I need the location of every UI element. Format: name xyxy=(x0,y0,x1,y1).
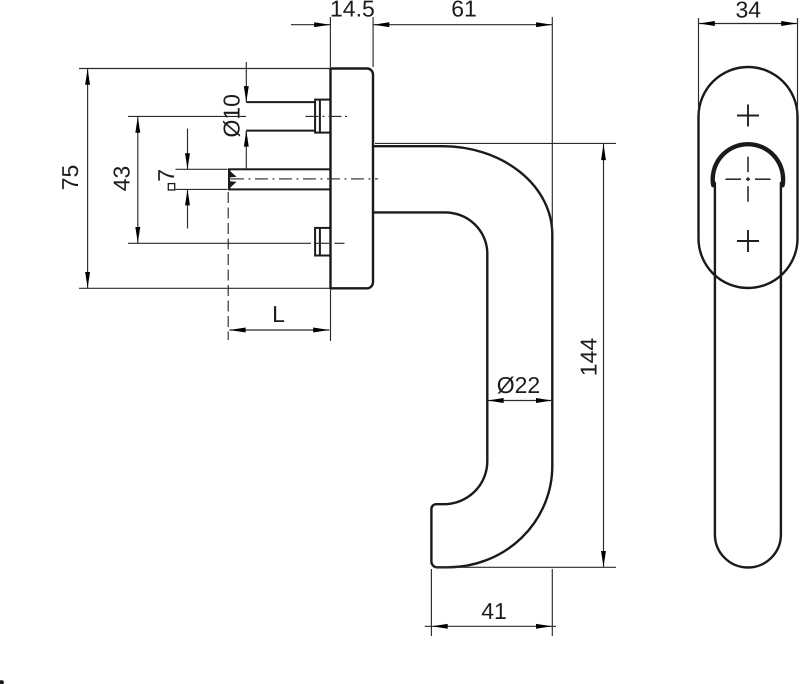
dimension line L xyxy=(229,329,329,331)
plate (rosette side view) xyxy=(331,69,374,289)
dimension line 61 xyxy=(373,24,552,26)
grip tube (front view) xyxy=(715,183,781,568)
top screw head xyxy=(315,100,330,133)
svg-text:41: 41 xyxy=(481,598,507,624)
dimension line diameter-10 (outside arrows) xyxy=(245,62,247,102)
rosette (front view, stadium) xyxy=(699,67,798,288)
svg-text:7: 7 xyxy=(153,169,179,182)
svg-text:Ø10: Ø10 xyxy=(219,94,245,137)
dimension line square-7 (outside arrows) xyxy=(187,129,189,170)
extension lines of 14.5 dim (plate faces) xyxy=(329,17,331,67)
dimension line 144 xyxy=(603,144,605,568)
extension line top of 75 dim / plate top level xyxy=(79,68,331,70)
grip end arc (thick) xyxy=(713,144,783,185)
bottom screw head xyxy=(315,228,330,256)
top screw cross mark xyxy=(737,105,759,127)
spindle (square 7 bar) xyxy=(229,169,331,189)
svg-text:61: 61 xyxy=(451,0,477,22)
extension lines of square-7 dim xyxy=(176,168,228,170)
dashed extension line at spindle end (L dim) xyxy=(227,192,229,340)
svg-text:144: 144 xyxy=(576,338,602,377)
extension lines of 34 dim xyxy=(698,18,700,114)
extension lines of 41 dim xyxy=(430,569,432,636)
svg-text:Ø22: Ø22 xyxy=(497,372,540,398)
spindle center line xyxy=(231,178,378,180)
dimension line 75 xyxy=(87,69,89,289)
dimension line 43 xyxy=(137,116,139,243)
svg-text:L: L xyxy=(272,301,285,327)
svg-text:14.5: 14.5 xyxy=(330,0,375,22)
svg-text:43: 43 xyxy=(109,166,135,192)
dimension line diameter-22 xyxy=(487,400,552,402)
stray dot bottom-left corner xyxy=(0,680,4,684)
svg-text:34: 34 xyxy=(736,0,762,23)
top screw center line xyxy=(306,115,348,117)
extension line right of 61 dim xyxy=(551,17,553,233)
bottom screw cross mark xyxy=(737,230,759,252)
spindle axis cross (dash-dot) xyxy=(726,157,771,202)
spindle end chamfer marks xyxy=(228,169,230,189)
extension line below plate left face (L dim) xyxy=(330,290,332,342)
extension line bottom of 75 dim / plate bottom level xyxy=(79,287,346,289)
dimension line 41 xyxy=(425,625,556,627)
extension line top of 144 dim xyxy=(375,142,616,144)
extension line bottom of 144 dim xyxy=(434,566,616,568)
dimension line 34 xyxy=(699,23,798,25)
svg-text:75: 75 xyxy=(57,165,83,191)
square symbol of square-7 label xyxy=(168,184,174,190)
bottom screw center line xyxy=(316,242,345,244)
top screw shaft xyxy=(246,101,315,103)
dimension line 14.5 (outside arrows) xyxy=(291,24,330,26)
extension line top of 43 dim (top screw axis) xyxy=(128,115,246,117)
handle outline (side view) xyxy=(373,146,552,567)
extension line bottom of 43 dim (bottom screw axis) xyxy=(128,242,311,244)
